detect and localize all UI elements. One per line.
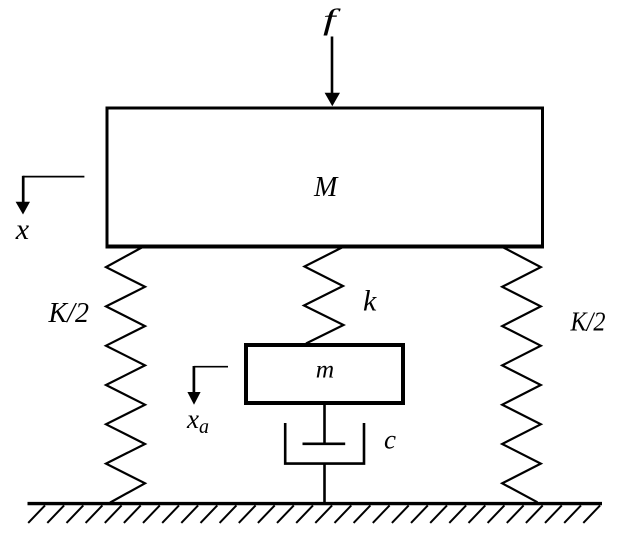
- svg-text:K/2: K/2: [570, 306, 606, 336]
- svg-text:x: x: [15, 213, 30, 246]
- svg-text:k: k: [363, 285, 377, 318]
- svg-text:M: M: [313, 172, 339, 203]
- svg-text:c: c: [384, 425, 396, 455]
- svg-text:m: m: [316, 355, 334, 384]
- svg-text:K/2: K/2: [48, 298, 89, 329]
